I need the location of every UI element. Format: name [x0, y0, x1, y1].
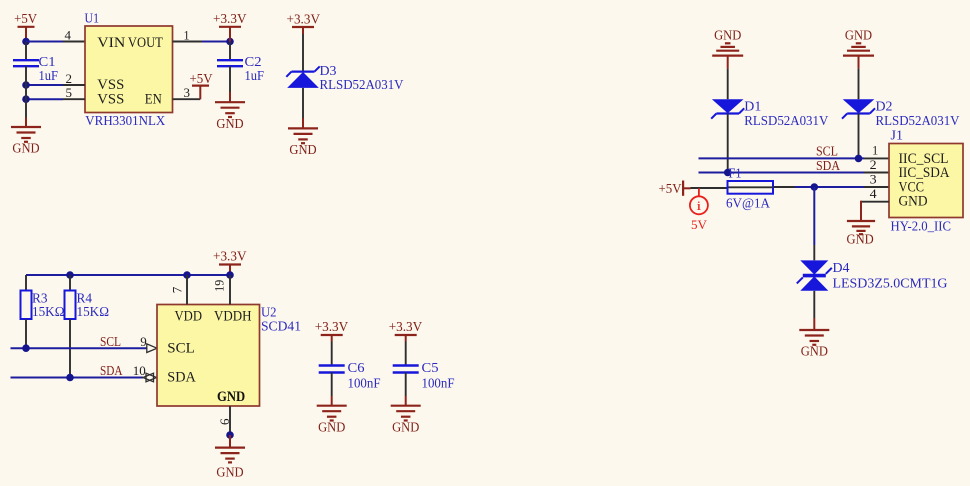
svg-text:D1: D1 — [744, 98, 761, 113]
wire fuse to VCC node — [773, 186, 795, 188]
ground stem (C2) — [229, 92, 231, 102]
power flag +3.3V (U2) — [213, 248, 247, 275]
svg-text:SCL: SCL — [167, 341, 195, 357]
wire J1 pin 2 stub — [864, 172, 889, 174]
wire J1 pin 3 stub — [864, 186, 889, 188]
wire C1 bottom lead — [25, 66, 27, 85]
svg-text:GND: GND — [216, 465, 244, 480]
wire U2 pin 6 lead — [229, 406, 231, 435]
junction +5V/VIN node — [22, 38, 30, 46]
op-amp U2 — [157, 305, 260, 407]
resistor R4 — [65, 291, 110, 320]
probe 5V — [690, 188, 708, 232]
svg-text:1uF: 1uF — [245, 68, 265, 83]
wire IIC_SDA wire — [699, 172, 865, 174]
wire +3.3V rail (U2 top) — [26, 274, 230, 276]
capacitor C1 — [13, 54, 58, 83]
power flag +3.3V (D3) — [287, 11, 321, 34]
wire C6 top lead — [331, 342, 333, 366]
junction node VSS/GND — [22, 95, 30, 103]
ground (C6 branch) — [317, 406, 347, 435]
wire VSS pin2 wire — [26, 84, 63, 86]
junction node D1/SDA — [724, 169, 732, 177]
svg-text:+5V: +5V — [659, 181, 682, 196]
svg-text:F1: F1 — [729, 165, 742, 180]
svg-text:GND: GND — [289, 142, 317, 157]
svg-text:GND: GND — [12, 141, 40, 156]
wire R3 bottom lead — [25, 319, 27, 348]
wire U1 pin 5 stub — [63, 98, 85, 100]
ground stem (C6) — [331, 396, 333, 406]
junction node R3/SCL — [22, 344, 30, 352]
svg-text:SCD41: SCD41 — [261, 318, 301, 333]
svg-text:3: 3 — [870, 171, 877, 186]
ground (C1 branch) — [11, 127, 41, 156]
ground (C5 branch) — [391, 406, 421, 435]
ground (D1 top) — [712, 27, 743, 55]
wire VSS vertical link — [25, 85, 27, 99]
svg-text:100nF: 100nF — [348, 376, 381, 391]
svg-text:GND: GND — [801, 344, 829, 359]
wire U2 pin 19 lead — [229, 275, 231, 305]
wire VCC to D4 — [813, 187, 815, 245]
svg-text:VSS: VSS — [97, 91, 124, 107]
wire U2 pin 7 lead — [186, 275, 188, 305]
connector J1 — [889, 144, 963, 218]
svg-text:VRH3301NLX: VRH3301NLX — [85, 113, 165, 128]
capacitor C2 — [217, 54, 264, 83]
wire U1 pin 1 stub — [173, 41, 203, 43]
ground (D4 branch) — [799, 330, 829, 359]
ground (D3 branch) — [288, 128, 318, 157]
svg-text:SDA: SDA — [816, 158, 840, 173]
svg-text:3: 3 — [184, 85, 191, 100]
capacitor C5 — [393, 360, 455, 391]
svg-text:1: 1 — [184, 27, 190, 42]
wire C2 bottom lead — [229, 66, 231, 92]
svg-text:VIN: VIN — [97, 35, 125, 51]
wire D3 top lead — [302, 34, 304, 72]
svg-text:15KΩ: 15KΩ — [32, 304, 65, 319]
fuse F1 — [728, 181, 774, 194]
op-amp U1 — [85, 26, 173, 113]
ground stem (U2) — [229, 435, 231, 448]
svg-text:+3.3V: +3.3V — [287, 11, 321, 26]
svg-text:5: 5 — [66, 85, 73, 100]
wire C6 bottom lead — [331, 373, 333, 397]
ground (J1 branch) — [847, 221, 876, 247]
wire SCL wire (U2) — [11, 347, 148, 349]
svg-text:GND: GND — [318, 419, 346, 434]
svg-text:SCL: SCL — [100, 334, 121, 349]
svg-text:HY-2.0_IIC: HY-2.0_IIC — [891, 218, 952, 233]
junction node VDD/rail — [183, 271, 191, 279]
power flag +5V (U1 input) — [14, 11, 37, 41]
diode D4 — [797, 260, 832, 290]
junction node VDDH/rail — [226, 271, 234, 279]
wire D4 bottom lead — [813, 291, 815, 318]
wire VCC wire to J1 — [795, 186, 864, 188]
wire D1 top lead — [727, 69, 729, 100]
wire C2 top lead — [229, 42, 231, 61]
svg-text:EN: EN — [145, 91, 162, 107]
ground stem (D1) — [727, 56, 729, 69]
junction VOUT/+3.3V node — [226, 38, 234, 46]
wire R3 top lead — [25, 275, 27, 291]
ground stem (C5) — [405, 396, 407, 406]
svg-text:GND: GND — [899, 194, 928, 210]
svg-text:+3.3V: +3.3V — [389, 319, 423, 334]
power flag +3.3V (C6) — [315, 319, 349, 342]
U2 pin 9 input arrow — [147, 344, 157, 353]
svg-text:19: 19 — [212, 280, 227, 292]
svg-text:SDA: SDA — [100, 363, 123, 378]
svg-text:+5V: +5V — [190, 71, 213, 86]
svg-text:J1: J1 — [891, 128, 904, 143]
svg-text:+3.3V: +3.3V — [213, 11, 247, 26]
wire VOUT to +3.3V node — [202, 41, 230, 43]
svg-text:9: 9 — [140, 334, 147, 349]
wire U1 pin 2 stub — [63, 84, 85, 86]
wire U1 pin 3 stub (EN) — [173, 98, 201, 100]
svg-text:C5: C5 — [422, 360, 439, 375]
junction node VCC/D4 — [811, 183, 819, 191]
svg-text:+3.3V: +3.3V — [213, 248, 247, 263]
svg-text:VDDH: VDDH — [214, 308, 252, 324]
svg-text:4: 4 — [65, 27, 72, 42]
U2 pin 10 bidirectional arrow — [143, 373, 157, 382]
svg-text:SDA: SDA — [167, 369, 196, 385]
svg-text:D4: D4 — [833, 260, 850, 275]
svg-text:i: i — [696, 198, 702, 213]
svg-text:GND: GND — [847, 232, 875, 247]
svg-text:6: 6 — [217, 418, 232, 425]
diode D1 — [711, 99, 744, 118]
ground stem (J1) — [860, 201, 862, 221]
power flag +5V (EN) — [190, 71, 213, 99]
wire D2 bottom lead — [858, 114, 860, 159]
svg-text:LESD3Z5.0CMT1G: LESD3Z5.0CMT1G — [833, 276, 948, 291]
wire SDA wire (U2) — [11, 377, 144, 379]
wire R4 top lead — [69, 275, 71, 291]
svg-text:VDD: VDD — [175, 308, 203, 324]
svg-text:5V: 5V — [691, 217, 708, 232]
svg-text:U2: U2 — [261, 304, 277, 319]
svg-text:GND: GND — [845, 27, 873, 42]
junction node R4/rail — [66, 271, 74, 279]
ground stem (D2) — [858, 56, 860, 69]
svg-text:GND: GND — [217, 389, 245, 405]
svg-text:2: 2 — [66, 71, 73, 86]
junction node R4/SDA — [66, 374, 74, 382]
svg-text:GND: GND — [714, 27, 742, 42]
power flag +3.3V (VOUT) — [213, 11, 247, 41]
wire GND drop (C1) — [25, 99, 27, 117]
wire VSS pin5 wire — [26, 98, 63, 100]
wire C1 top lead — [25, 42, 27, 61]
junction node D2/SCL — [855, 155, 863, 163]
wire D2 top lead — [858, 69, 860, 100]
wire D3 bottom lead — [302, 88, 304, 118]
junction node pin6/GND — [226, 431, 234, 439]
svg-text:6V@1A: 6V@1A — [726, 195, 770, 210]
ground stem (C1) — [25, 118, 27, 128]
svg-text:10: 10 — [133, 363, 146, 378]
ground (C2 branch) — [215, 102, 245, 131]
svg-text:RLSD52A031V: RLSD52A031V — [876, 113, 960, 128]
svg-text:1uF: 1uF — [39, 68, 59, 83]
svg-text:+3.3V: +3.3V — [315, 319, 349, 334]
svg-text:7: 7 — [170, 286, 185, 293]
wire +5V to fuse — [691, 187, 728, 189]
svg-text:VSS: VSS — [97, 77, 124, 93]
wire J1 pin 4 stub — [861, 201, 889, 203]
power flag +3.3V (C5) — [389, 319, 423, 342]
svg-text:4: 4 — [870, 186, 878, 201]
wire D4 top lead — [813, 245, 815, 260]
ground (D2 top) — [843, 27, 874, 55]
ground (U2 branch) — [215, 448, 245, 480]
resistor R3 — [21, 291, 65, 320]
diode D3 — [286, 66, 319, 88]
svg-text:RLSD52A031V: RLSD52A031V — [744, 113, 828, 128]
power flag +5V (VCC) — [659, 181, 691, 196]
svg-text:D2: D2 — [876, 98, 893, 113]
wire +5V to U1 VIN — [26, 41, 63, 43]
wire U1 pin 4 stub — [63, 41, 85, 43]
ground stem (D3) — [302, 118, 304, 128]
svg-text:RLSD52A031V: RLSD52A031V — [320, 77, 404, 92]
svg-text:U1: U1 — [85, 10, 100, 25]
svg-text:+5V: +5V — [14, 11, 37, 26]
svg-text:VOUT: VOUT — [128, 35, 163, 51]
svg-text:C6: C6 — [348, 360, 365, 375]
svg-text:15KΩ: 15KΩ — [77, 304, 110, 319]
wire IIC_SCL wire — [699, 157, 865, 159]
svg-text:GND: GND — [392, 419, 420, 434]
wire D1 bottom lead — [727, 114, 729, 173]
svg-text:1: 1 — [872, 143, 878, 158]
svg-text:100nF: 100nF — [422, 376, 455, 391]
capacitor C6 — [319, 360, 381, 391]
junction node C1-/VSS — [22, 81, 30, 89]
svg-text:SCL: SCL — [816, 144, 838, 159]
svg-text:GND: GND — [216, 116, 244, 131]
wire C5 bottom lead — [405, 373, 407, 397]
wire R4 bottom lead — [69, 319, 71, 378]
wire J1 pin 1 stub — [864, 157, 889, 159]
diode D2 — [842, 99, 875, 118]
ground stem (D4) — [813, 318, 815, 330]
svg-text:2: 2 — [870, 157, 877, 172]
wire C5 top lead — [405, 342, 407, 366]
